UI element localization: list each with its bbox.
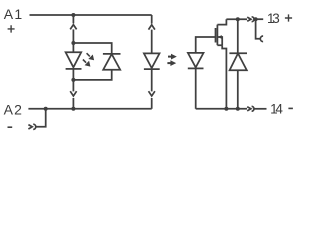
plus sign at 13 [285, 14, 292, 21]
wire LED anode [72, 43, 74, 52]
wire opto LED anode [151, 30, 153, 54]
svg-text:13: 13 [267, 11, 279, 26]
wire D3 anode top [237, 19, 239, 53]
jumper contact stub at 13 [256, 19, 261, 39]
node jumper branch 13 [254, 17, 258, 21]
wire opto branch to A2 rail corner [151, 98, 153, 109]
wire output rail [196, 108, 247, 110]
male plug arrow at 13 [247, 17, 251, 21]
plug contact arrow up on LED branch [70, 25, 76, 30]
node A2 rail junction at jumper [44, 107, 48, 111]
plug contact arrow down on LED branch [70, 91, 76, 96]
male plug arrow at A2 stub [28, 125, 32, 129]
wire to A2 rail [72, 98, 74, 109]
minus sign at 14 [288, 107, 293, 109]
wire LED cathode to node [72, 69, 74, 80]
opto light arrow upper [168, 54, 177, 60]
wire D1 branch bottom [73, 70, 111, 80]
svg-text:A2: A2 [4, 101, 24, 117]
node output rail at source [224, 107, 228, 111]
LED V1 indicator triangle [66, 52, 82, 67]
wire D1 branch top [73, 43, 111, 54]
node A1 rail junction [71, 13, 75, 17]
diode D3 cathode bar [229, 52, 247, 54]
wire photodiode cathode to output rail [195, 68, 197, 108]
opto LED V2 triangle [144, 53, 160, 68]
wire LED branch lower [72, 80, 74, 92]
wire A2 rail [28, 108, 151, 110]
plug contact arrow down on opto branch [149, 91, 155, 96]
node D1 branch bottom [71, 78, 75, 82]
wire socket to label 14 [254, 108, 267, 110]
svg-text:A1: A1 [4, 6, 24, 22]
wire D3 to output rail [237, 70, 239, 109]
male plug arrow at 14 [247, 107, 251, 111]
MOSFET T1 substrate arrow [218, 35, 222, 39]
photodiode D2 triangle [188, 53, 204, 68]
MOSFET T1 drain stub [217, 19, 226, 24]
MOSFET T1 gate plate [215, 28, 217, 43]
wire opto LED branch top corner [151, 15, 153, 24]
MOSFET T1 substrate stub [217, 37, 222, 45]
opto LED V2 cathode bar [144, 68, 160, 70]
wire photodiode top corner to gate [196, 37, 216, 53]
LED V1 emission arrow lower [83, 60, 91, 67]
wire LED branch upper stub [72, 15, 74, 23]
MOSFET T1 channel [216, 25, 218, 46]
female contact socket at 13 stub [260, 36, 263, 42]
node D3 top [236, 17, 240, 21]
node D1 branch top [71, 41, 75, 45]
wire A1 rail [30, 14, 152, 16]
LED V1 emission arrow upper [87, 53, 95, 60]
plus sign at A1 [8, 25, 15, 32]
wire opto LED cathode [151, 69, 153, 91]
female contact socket at 13 [252, 17, 254, 22]
minus sign at A2 [8, 126, 13, 128]
diode D3 triangle [230, 53, 247, 70]
diode D1 triangle [103, 54, 120, 70]
svg-text:14: 14 [270, 102, 283, 117]
LED V1 cathode bar [66, 68, 82, 70]
opto light arrow lower [167, 60, 176, 66]
wire LED branch to node [72, 29, 74, 43]
MOSFET T1 source stair [217, 45, 226, 109]
diode D1 cathode bar [103, 53, 121, 55]
photodiode D2 cathode bar [188, 67, 204, 69]
plug contact arrow up on opto branch [149, 25, 155, 30]
node output rail at D3 [236, 107, 240, 111]
wire socket to label 13 [254, 18, 263, 20]
female contact socket at 14 [252, 106, 254, 111]
wire drain to terminal 13 [226, 18, 247, 20]
jumper contact stub at A2 [36, 109, 46, 127]
female contact socket at A2 stub [33, 124, 36, 129]
node A2 rail junction at W1 [71, 107, 75, 111]
